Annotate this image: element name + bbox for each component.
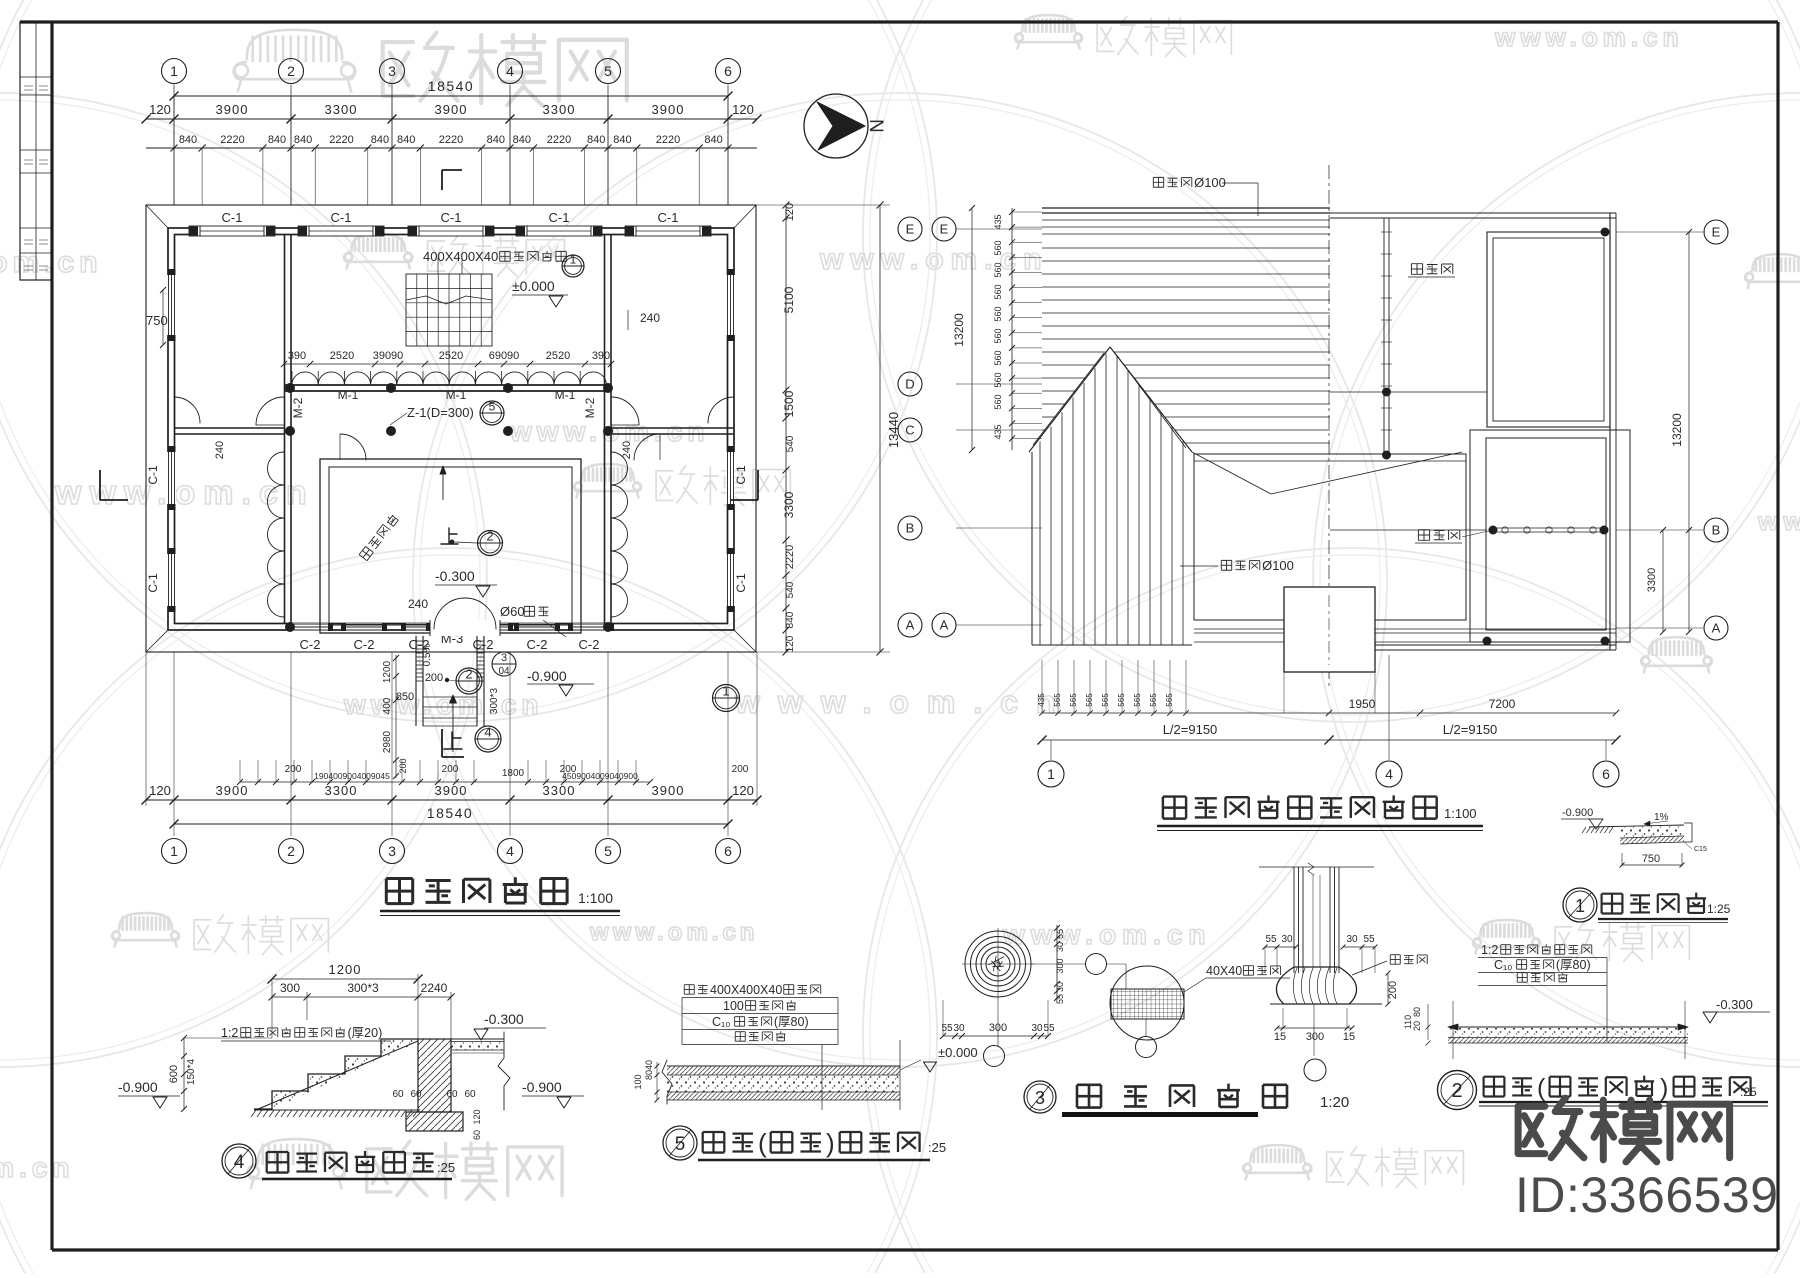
svg-text:120: 120 — [784, 203, 796, 221]
svg-text:30: 30 — [1031, 1023, 1043, 1034]
title block strip — [20, 22, 52, 280]
svg-text:18540: 18540 — [428, 78, 474, 94]
svg-text:1200: 1200 — [329, 962, 362, 977]
svg-text:30: 30 — [1346, 934, 1358, 945]
svg-text:2: 2 — [287, 843, 295, 859]
svg-text:30: 30 — [1281, 934, 1293, 945]
svg-text:www.om.cn: www.om.cn — [734, 684, 1074, 720]
svg-text::25: :25 — [1740, 1085, 1757, 1099]
svg-text:2: 2 — [465, 667, 472, 682]
svg-text:200: 200 — [1387, 981, 1399, 999]
svg-text:240: 240 — [621, 441, 633, 459]
svg-text:5: 5 — [489, 400, 496, 414]
svg-text:M-1: M-1 — [446, 388, 467, 402]
shangwujia label — [1411, 264, 1452, 275]
left rooms dividing wall — [174, 427, 284, 429]
svg-text:B: B — [906, 521, 915, 536]
svg-text:600: 600 — [168, 1065, 180, 1083]
svg-text:3900: 3900 — [435, 102, 468, 117]
svg-text:5: 5 — [675, 1134, 686, 1155]
svg-text:www.om.cn: www.om.cn — [1494, 22, 1684, 52]
svg-text:3: 3 — [388, 843, 396, 859]
svg-text:2: 2 — [1451, 1080, 1462, 1102]
svg-text:D: D — [905, 377, 914, 392]
svg-text:E: E — [940, 222, 949, 237]
main truss vertical — [1383, 218, 1385, 455]
svg-text:390: 390 — [592, 350, 610, 362]
svg-text:1: 1 — [1575, 896, 1585, 916]
svg-text:840: 840 — [294, 134, 312, 146]
svg-text:L/2=9150: L/2=9150 — [1163, 722, 1218, 737]
svg-text:2220: 2220 — [547, 134, 571, 146]
svg-text:540: 540 — [785, 435, 796, 452]
indoor title — [663, 1126, 697, 1160]
svg-text:C₁₀: C₁₀ — [712, 1015, 730, 1029]
svg-text:1:100: 1:100 — [578, 890, 613, 906]
svg-text:40X40: 40X40 — [1206, 964, 1242, 978]
svg-text:560: 560 — [993, 306, 1003, 321]
svg-text:565: 565 — [1101, 693, 1110, 707]
svg-text:1200: 1200 — [382, 660, 393, 683]
svg-text:55: 55 — [1265, 934, 1277, 945]
svg-text:C-1: C-1 — [222, 210, 243, 225]
svg-text:N: N — [865, 119, 886, 133]
porch left rotated dims — [395, 655, 397, 778]
svg-text:www.om.cn: www.om.cn — [819, 243, 1049, 276]
svg-text:750: 750 — [1642, 853, 1660, 865]
corner diagonals — [146, 205, 168, 228]
svg-text:www.om.cn: www.om.cn — [1002, 919, 1212, 950]
roof plan right dim chain — [1688, 232, 1690, 632]
svg-text:13440: 13440 — [886, 412, 901, 448]
gaodicha text — [359, 513, 399, 561]
dividing wall door arcs — [340, 434, 366, 460]
column elevation — [1259, 866, 1374, 868]
svg-text:M-2: M-2 — [291, 397, 305, 418]
svg-text:2: 2 — [287, 63, 295, 79]
svg-text:565: 565 — [1133, 693, 1142, 707]
svg-text:A: A — [906, 618, 915, 633]
svg-text:840: 840 — [397, 134, 415, 146]
north arrow — [804, 94, 868, 158]
plan left dims — [162, 290, 164, 345]
svg-text:400X400X40: 400X400X40 — [423, 249, 498, 264]
svg-text:7200: 7200 — [1489, 697, 1516, 711]
svg-text:2520: 2520 — [330, 350, 354, 362]
svg-text:840: 840 — [513, 134, 531, 146]
svg-text:69090: 69090 — [489, 350, 520, 362]
svg-text:1:100: 1:100 — [1444, 806, 1477, 821]
roof plan left grid bubbles — [898, 217, 922, 241]
gable rafters — [1039, 441, 1041, 645]
svg-text:435: 435 — [993, 214, 1003, 229]
courtyard door M-3 arcs — [434, 598, 465, 629]
svg-text:560: 560 — [993, 394, 1003, 409]
step title — [222, 1144, 256, 1178]
svg-text:3300: 3300 — [325, 783, 358, 798]
svg-text:6: 6 — [1602, 766, 1610, 782]
right floor at -0.300 — [451, 1038, 504, 1040]
svg-text:3: 3 — [1035, 1088, 1045, 1108]
svg-text:C-1: C-1 — [734, 465, 748, 485]
svg-text:60: 60 — [446, 1089, 458, 1100]
mesh square figure — [1031, 963, 1085, 965]
svg-text:L/2=9150: L/2=9150 — [1443, 722, 1498, 737]
svg-text:C-1: C-1 — [549, 210, 570, 225]
svg-text:13200: 13200 — [1670, 413, 1684, 447]
colonnade dims — [284, 363, 611, 365]
svg-text:3900: 3900 — [216, 102, 249, 117]
svg-text::25: :25 — [437, 1160, 455, 1175]
svg-text:5: 5 — [604, 63, 612, 79]
svg-text:565: 565 — [1069, 693, 1078, 707]
bottom wall + windows C-2 — [292, 623, 328, 632]
svg-text:13200: 13200 — [952, 313, 966, 347]
svg-text:2220: 2220 — [439, 134, 463, 146]
svg-text:300: 300 — [1306, 1031, 1324, 1043]
svg-text:www.om.cn: www.om.cn — [343, 689, 544, 720]
svg-text:2520: 2520 — [439, 350, 463, 362]
top wall windows C-1 — [200, 226, 264, 236]
svg-text:540: 540 — [785, 581, 796, 598]
svg-text:200: 200 — [285, 764, 302, 775]
interior horizontal wall (arc colonnade) — [284, 384, 611, 386]
svg-text:8040: 8040 — [644, 1060, 654, 1080]
svg-text:(厚80): (厚80) — [1556, 958, 1591, 972]
column plan dims — [943, 1035, 1048, 1037]
svg-text:30: 30 — [1055, 982, 1065, 992]
center axis dash-dot — [1328, 165, 1330, 690]
svg-text:840: 840 — [587, 134, 605, 146]
svg-text:(: ( — [758, 1128, 767, 1158]
roof plan left dim chain — [1011, 208, 1013, 450]
svg-text:2220: 2220 — [220, 134, 244, 146]
colonnade arches row — [292, 372, 318, 385]
svg-text:2: 2 — [486, 529, 493, 544]
svg-text:C-2: C-2 — [473, 637, 494, 652]
svg-text:560: 560 — [993, 372, 1003, 387]
svg-text:1: 1 — [170, 63, 178, 79]
duofushi label — [1390, 955, 1427, 965]
mulin labels — [1153, 177, 1163, 187]
outer walls — [168, 228, 734, 630]
svg-text:565: 565 — [1117, 693, 1126, 707]
step detail dims top — [272, 978, 418, 980]
grid circles bottom — [162, 839, 187, 864]
plan title — [386, 879, 412, 904]
roof title — [1163, 797, 1186, 819]
svg-text:565: 565 — [1053, 693, 1062, 707]
stair outline — [254, 1039, 418, 1109]
outdoor floor strip — [1448, 1026, 1688, 1028]
interior vertical walls — [284, 234, 286, 624]
watermark background arcs — [0, 0, 937, 722]
indoor floor text table — [684, 985, 694, 995]
svg-text:M-1: M-1 — [338, 388, 359, 402]
svg-text:1: 1 — [570, 253, 577, 267]
svg-text:100: 100 — [633, 1074, 643, 1089]
bottom dim rows — [240, 781, 650, 783]
svg-text:435: 435 — [993, 424, 1003, 439]
svg-text:±0.000: ±0.000 — [938, 1045, 978, 1060]
floor plan: grid circles top — [162, 59, 187, 84]
svg-text:840: 840 — [371, 134, 389, 146]
room door arcs upper-left — [174, 397, 200, 423]
svg-text:0.5%: 0.5% — [422, 643, 433, 666]
svg-text:2220: 2220 — [784, 545, 796, 569]
column plan concentric circles — [965, 931, 1031, 997]
svg-text:1500: 1500 — [782, 390, 796, 417]
svg-text:2220: 2220 — [656, 134, 680, 146]
svg-text:2240: 2240 — [421, 981, 448, 995]
svg-text:E: E — [1712, 225, 1721, 240]
svg-text:150*4: 150*4 — [186, 1058, 197, 1085]
valley diagonals — [1192, 452, 1271, 494]
upper right rect — [1487, 232, 1610, 427]
courtyard — [320, 459, 581, 633]
svg-text:5: 5 — [604, 843, 612, 859]
svg-text:www.om.cn: www.om.cn — [54, 474, 315, 512]
svg-text:-0.300: -0.300 — [435, 568, 475, 584]
vase base — [1276, 967, 1356, 1004]
svg-text::25: :25 — [928, 1140, 946, 1155]
svg-text:C-2: C-2 — [300, 637, 321, 652]
svg-text:560: 560 — [993, 350, 1003, 365]
svg-text:1904009004009045: 1904009004009045 — [314, 771, 390, 781]
svg-text:(厚80): (厚80) — [774, 1015, 809, 1029]
svg-text:200: 200 — [425, 672, 443, 684]
svg-text:Z-1(D=300): Z-1(D=300) — [407, 405, 474, 420]
svg-text:80: 80 — [1412, 1007, 1422, 1017]
svg-text:ID:3366539: ID:3366539 — [1515, 1167, 1779, 1223]
section mark left — [99, 470, 101, 500]
svg-text:1800: 1800 — [502, 768, 525, 779]
svg-text:55: 55 — [1055, 929, 1065, 939]
svg-text:2520: 2520 — [546, 350, 570, 362]
svg-text:C-2: C-2 — [354, 637, 375, 652]
column title — [1024, 1081, 1056, 1113]
svg-text:240: 240 — [214, 441, 226, 459]
svg-text:120: 120 — [472, 1109, 482, 1124]
svg-text:C₁₀: C₁₀ — [1494, 958, 1512, 972]
svg-text:120: 120 — [149, 783, 171, 798]
svg-text:C-1: C-1 — [146, 465, 160, 485]
svg-text:435: 435 — [1037, 693, 1046, 707]
svg-text:(: ( — [1537, 1074, 1546, 1102]
svg-text:300: 300 — [1055, 958, 1065, 973]
svg-text:400: 400 — [382, 697, 393, 714]
svg-text:60: 60 — [410, 1089, 422, 1100]
A-row dots — [1483, 637, 1492, 646]
svg-text:3900: 3900 — [216, 783, 249, 798]
svg-text:A: A — [1712, 621, 1721, 636]
svg-text:565: 565 — [1085, 693, 1094, 707]
fan doors left wall — [268, 452, 285, 485]
svg-text:M-2: M-2 — [583, 397, 597, 418]
svg-text:39090: 39090 — [373, 350, 404, 362]
roof right half frame — [1330, 212, 1616, 214]
svg-text:20: 20 — [1412, 1021, 1422, 1031]
svg-text:C-1: C-1 — [146, 573, 160, 593]
floor plan: top dimension rows — [174, 95, 728, 97]
svg-text:C-1: C-1 — [734, 573, 748, 593]
svg-text:-0.300: -0.300 — [484, 1011, 524, 1027]
svg-text:565: 565 — [1165, 693, 1174, 707]
lower right rect — [1470, 430, 1630, 642]
svg-text:840: 840 — [785, 611, 796, 628]
svg-text:): ) — [826, 1128, 835, 1158]
courtyard roof opening — [1194, 454, 1466, 620]
watermark logos — [234, 30, 356, 93]
svg-text:04: 04 — [498, 666, 510, 677]
swing doors at M-2 — [256, 397, 284, 425]
roof plan right grid bubbles — [1704, 220, 1728, 244]
ground hatch — [254, 1109, 420, 1111]
plan right dims — [785, 205, 787, 652]
svg-text:300*3: 300*3 — [347, 981, 379, 995]
svg-text:B: B — [1712, 523, 1721, 538]
svg-text:200: 200 — [398, 758, 408, 773]
svg-text:55: 55 — [1055, 994, 1065, 1004]
B-row secondary truss — [1330, 529, 1487, 531]
svg-text:5100: 5100 — [782, 286, 796, 313]
page border frame — [20, 20, 1778, 23]
purlins clipped around gable — [1042, 351, 1106, 353]
svg-text:15: 15 — [1274, 1031, 1286, 1043]
svg-text:4: 4 — [506, 63, 514, 79]
svg-text:1: 1 — [722, 684, 729, 699]
floor plan: eave outline — [146, 205, 756, 652]
svg-text:300: 300 — [280, 981, 300, 995]
side wall windows C-1 — [167, 275, 176, 335]
svg-text:3300: 3300 — [325, 102, 358, 117]
svg-text:-0.900: -0.900 — [118, 1079, 158, 1095]
break line — [498, 1032, 510, 1110]
D-row line — [1330, 391, 1487, 393]
column dots Z-1 — [285, 383, 295, 393]
svg-text:www.om.cn: www.om.cn — [0, 1152, 75, 1183]
200 dim — [1387, 973, 1389, 1004]
leader to level — [900, 1060, 921, 1070]
svg-text:1:20: 1:20 — [1320, 1094, 1349, 1111]
svg-text:110: 110 — [1403, 1015, 1413, 1029]
svg-text:2220: 2220 — [329, 134, 353, 146]
svg-text:E: E — [906, 222, 915, 237]
stair concrete fill — [272, 1039, 418, 1109]
svg-text:120: 120 — [149, 102, 171, 117]
svg-text:18540: 18540 — [427, 805, 473, 821]
svg-text:55: 55 — [1363, 934, 1375, 945]
svg-text:Ø60: Ø60 — [500, 604, 525, 619]
svg-text:100: 100 — [723, 999, 744, 1013]
svg-text:±0.000: ±0.000 — [512, 278, 555, 294]
svg-text:-0.900: -0.900 — [522, 1079, 562, 1095]
svg-text:4: 4 — [506, 843, 514, 859]
svg-text:4: 4 — [484, 725, 491, 740]
svg-text:1: 1 — [1047, 766, 1055, 782]
svg-text:Ø100: Ø100 — [1194, 175, 1226, 190]
svg-text:300*3: 300*3 — [489, 687, 500, 714]
svg-text:3300: 3300 — [1646, 568, 1658, 592]
svg-text:60: 60 — [464, 1089, 476, 1100]
svg-text:6: 6 — [724, 63, 732, 79]
svg-text:840: 840 — [179, 134, 197, 146]
svg-text:840: 840 — [268, 134, 286, 146]
roof grid circles bottom — [1038, 761, 1064, 787]
apron title — [1563, 888, 1597, 922]
indoor floor strip — [667, 1066, 900, 1075]
svg-text:M-1: M-1 — [555, 388, 576, 402]
svg-text:C-1: C-1 — [441, 210, 462, 225]
svg-text:560: 560 — [993, 284, 1003, 299]
svg-text:840: 840 — [613, 134, 631, 146]
svg-text:6: 6 — [724, 843, 732, 859]
svg-text:60: 60 — [472, 1130, 482, 1140]
svg-text:C15: C15 — [1694, 846, 1707, 853]
svg-text:-0.300: -0.300 — [1716, 997, 1753, 1012]
svg-text:2980: 2980 — [382, 730, 393, 753]
svg-text:3300: 3300 — [543, 102, 576, 117]
svg-text:55: 55 — [1043, 1023, 1055, 1034]
svg-text:400X400X40: 400X400X40 — [710, 983, 782, 997]
svg-text:565: 565 — [1149, 693, 1158, 707]
bottom section mark — [441, 729, 443, 757]
svg-text:): ) — [1660, 1074, 1668, 1102]
svg-text:C-2: C-2 — [527, 637, 548, 652]
courtyard annotations — [442, 466, 444, 500]
svg-text:C-1: C-1 — [658, 210, 679, 225]
svg-text:120: 120 — [732, 783, 754, 798]
step wall hatched — [418, 1039, 451, 1112]
svg-text:3300: 3300 — [782, 491, 796, 518]
roof bottom dims — [1041, 660, 1043, 713]
svg-text:4: 4 — [234, 1152, 245, 1173]
svg-text:390: 390 — [288, 350, 306, 362]
svg-text:-0.900: -0.900 — [527, 668, 567, 684]
svg-text:840: 840 — [487, 134, 505, 146]
svg-text:240: 240 — [408, 597, 428, 611]
svg-text:240: 240 — [640, 311, 660, 325]
svg-text:30: 30 — [1055, 942, 1065, 952]
svg-text:1:25: 1:25 — [1707, 902, 1731, 916]
gable triangle — [1029, 347, 1110, 452]
section mark 1-1 top — [442, 169, 462, 171]
svg-text:1:2: 1:2 — [1481, 943, 1498, 957]
chimney rect — [1284, 587, 1375, 672]
svg-text:30: 30 — [953, 1023, 965, 1034]
section mark right — [757, 470, 759, 500]
svg-text:3300: 3300 — [543, 783, 576, 798]
svg-text:www.om.cn: www.om.cn — [589, 919, 758, 946]
svg-text:(厚20): (厚20) — [348, 1026, 383, 1040]
svg-text:560: 560 — [993, 262, 1003, 277]
svg-text:C-1: C-1 — [331, 210, 352, 225]
vase dims — [1265, 946, 1296, 948]
svg-text:Ø100: Ø100 — [1262, 558, 1294, 573]
svg-text:1: 1 — [170, 843, 178, 859]
svg-text:3: 3 — [501, 652, 507, 664]
svg-text:3900: 3900 — [652, 783, 685, 798]
bottom dim 15 300 15 — [1277, 1027, 1352, 1029]
svg-text:4: 4 — [1385, 766, 1393, 782]
svg-text:120: 120 — [785, 635, 796, 652]
svg-text:120: 120 — [732, 102, 754, 117]
svg-text:-0.900: -0.900 — [1562, 807, 1593, 819]
svg-text:560: 560 — [993, 328, 1003, 343]
big site watermark text — [1518, 1098, 1584, 1158]
svg-text:3900: 3900 — [435, 783, 468, 798]
roof purlin area — [1042, 207, 1330, 209]
